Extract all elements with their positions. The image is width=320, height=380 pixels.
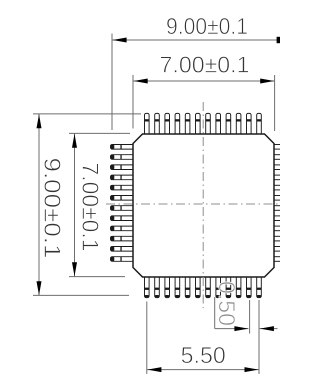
lead pin, bottom row #5 <box>185 276 190 298</box>
lead pin, left row #11 <box>111 247 135 252</box>
lead pin, right row #5 <box>273 185 281 190</box>
dimension line 0.50 left segment <box>215 328 249 330</box>
lead pin, bottom row #8 <box>216 276 221 298</box>
lead pin, bottom row #9 <box>226 276 231 298</box>
lead pin, left row #10 <box>111 236 135 241</box>
lead pin, right row #4 <box>273 175 281 180</box>
lead pin, left row #9 <box>111 226 135 231</box>
extension line: first pin center (for 5.50) <box>146 302 148 375</box>
arrow of 0.50 pointing right <box>234 326 248 331</box>
svg-text:5.50: 5.50 <box>181 342 226 368</box>
extension line: bottom lead tips (for 9.00 vert) <box>33 294 129 296</box>
dimension line 9.00 horiz <box>112 39 278 41</box>
arrow of 0.50 pointing left <box>260 326 274 331</box>
lead pin, left row #8 <box>111 216 135 221</box>
lead pin, bottom row #2 <box>155 276 160 298</box>
lead pin, right row #8 <box>273 216 281 221</box>
lead pin, left row #5 <box>111 185 135 190</box>
lead pin, right row #2 <box>273 155 281 160</box>
extension line: top lead tips (for 9.00 vert) <box>33 113 141 115</box>
dimension line 7.00 horiz <box>133 80 275 82</box>
lead pin, bottom row #7 <box>206 276 211 298</box>
lead pin, top row #7 <box>206 113 211 135</box>
lead pin, top row #6 <box>196 113 201 135</box>
horizontal centerline <box>106 203 280 205</box>
vertical centerline <box>202 102 204 308</box>
lead pin, bottom row #4 <box>175 276 180 298</box>
lead pin, top row #11 <box>247 113 252 135</box>
extension line: body left edge (for 7.00 horiz) <box>132 75 134 129</box>
arrow left of 9.00 horiz <box>113 38 127 43</box>
lead pin, top row #4 <box>175 113 180 135</box>
lead pin, left row #12 <box>111 257 135 262</box>
extension line: last pin center (for 5.50/0.50) <box>258 300 260 374</box>
arrow top of 7.00 vert <box>72 134 77 148</box>
lead pin, bottom row #6 <box>196 276 201 298</box>
lead pin, right row #12 <box>273 257 281 262</box>
lead pin, right row #7 <box>273 206 281 211</box>
lead pin, top row #5 <box>185 113 190 135</box>
arrow left of 5.50 <box>147 367 161 372</box>
lead pin, bottom row #12 <box>257 276 262 298</box>
svg-text:7.00±0.1: 7.00±0.1 <box>160 52 250 78</box>
lead pin, top row #1 <box>145 113 150 135</box>
arrow left of 7.00 horiz <box>134 79 148 84</box>
svg-text:9.00±0.1: 9.00±0.1 <box>166 13 248 39</box>
lead pin, top row #12 <box>257 113 262 135</box>
lead pin, top row #3 <box>165 113 170 135</box>
arrow top of 9.00 vert <box>37 114 42 128</box>
dimension line 7.00 vert <box>74 133 76 276</box>
lead pin, left row #7 <box>111 206 135 211</box>
arrow right of 5.50 <box>245 367 259 372</box>
extension line: 11th pin center (for 0.50) <box>249 300 251 334</box>
lead pin, left row #3 <box>111 165 135 170</box>
extension line: body bottom edge (for 7.00 vert) <box>69 276 125 278</box>
lead pin, top row #10 <box>236 113 241 135</box>
leader vertical for 0.50 <box>214 297 216 329</box>
lead pin, top row #9 <box>226 113 231 135</box>
lead pin, left row #2 <box>111 155 135 160</box>
lead pin, top row #2 <box>155 113 160 135</box>
lead pin, right row #3 <box>273 165 281 170</box>
lead pin, bottom row #3 <box>165 276 170 298</box>
arrow bottom of 7.00 vert <box>72 262 77 276</box>
dimension line 5.50 <box>147 369 259 371</box>
dimension line 9.00 vert <box>38 114 40 296</box>
lead pin, bottom row #1 <box>145 276 150 298</box>
dimension line 0.50 right segment <box>260 328 278 330</box>
lead pin, top row #8 <box>216 113 221 135</box>
lead pin, right row #10 <box>273 236 281 241</box>
arrow right of 7.00 horiz <box>260 79 274 84</box>
svg-text:9.00±0.1: 9.00±0.1 <box>40 158 66 259</box>
lead pin, right row #11 <box>273 247 281 252</box>
arrow right of 9.00 horiz (cropped at image edge) <box>277 37 280 43</box>
lead pin, left row #1 <box>111 145 135 150</box>
lead pin, bottom row #11 <box>247 276 252 298</box>
arrow bottom of 9.00 vert <box>37 281 42 295</box>
lead pin, left row #4 <box>111 175 135 180</box>
lead pin, right row #1 <box>273 145 281 150</box>
package body outline (chamfered square) <box>133 134 274 277</box>
extension line: body top edge (for 7.00 vert) <box>69 132 130 134</box>
extension line: left lead tips (for 9.00 horiz) <box>111 34 113 131</box>
lead pin, bottom row #10 <box>236 276 241 298</box>
svg-text:0.50: 0.50 <box>214 281 240 326</box>
lead pin, right row #9 <box>273 226 281 231</box>
svg-text:7.00±0.1: 7.00±0.1 <box>78 163 104 252</box>
lead pin, left row #6 <box>111 196 135 201</box>
extension line: body right edge (for 7.00 horiz) <box>274 75 276 131</box>
lead pin, right row #6 <box>273 196 281 201</box>
